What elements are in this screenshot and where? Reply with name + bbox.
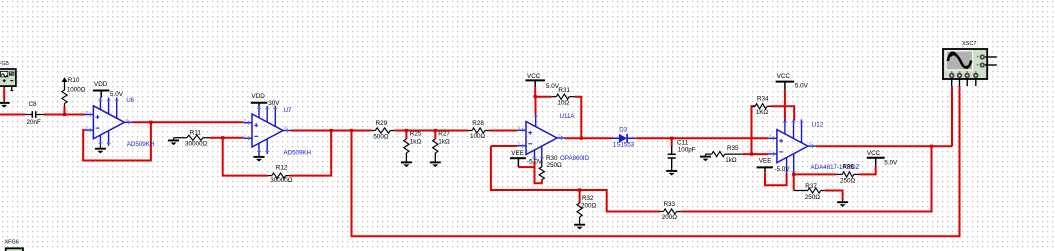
svg-text:U6: U6 [126, 97, 134, 104]
oscilloscope terminal 4 [973, 71, 978, 86]
junction U7 output-R12 [330, 129, 333, 132]
svg-text:200Ω: 200Ω [662, 214, 678, 221]
svg-text:R12: R12 [276, 165, 288, 172]
resistor R25 [404, 130, 422, 160]
wire R10 to input line [64, 107, 66, 115]
svg-text:VEE: VEE [511, 150, 524, 157]
wire R27 stub [434, 131, 436, 140]
junction U12 output feedback [930, 145, 933, 148]
svg-text:200Ω: 200Ω [581, 202, 597, 209]
svg-text:XFG6: XFG6 [5, 239, 19, 245]
svg-text:30000Ω: 30000Ω [185, 141, 208, 148]
svg-text:2: 2 [244, 134, 246, 138]
svg-text:5.0V: 5.0V [884, 160, 898, 167]
capacitor C11 [668, 139, 696, 168]
power VDD U7 30V [251, 93, 281, 107]
diode D3 [612, 126, 636, 148]
svg-text:1kΩ: 1kΩ [725, 157, 737, 164]
svg-text:AD509KH: AD509KH [284, 150, 312, 157]
svg-text:1KΩ: 1KΩ [756, 109, 769, 116]
wire C8 to U6 noninverting input [44, 114, 85, 116]
junction U7 output-netB [350, 129, 353, 132]
wire C11 stub [671, 138, 673, 146]
svg-text:R25: R25 [410, 130, 422, 137]
wire VEE dogleg to R30 [535, 161, 542, 183]
resistor R12 [268, 165, 293, 185]
resistor R11 [174, 130, 210, 148]
power VEE U11A -5.0V [510, 150, 543, 167]
svg-text:R36: R36 [843, 164, 855, 171]
svg-text:100pF: 100pF [678, 146, 696, 153]
svg-text:R35: R35 [727, 145, 739, 152]
junction R10-input [63, 113, 66, 116]
svg-text:C11: C11 [677, 139, 689, 146]
svg-text:3: 3 [244, 119, 246, 123]
wire U7 output [291, 130, 371, 132]
svg-text:AD509KH: AD509KH [127, 141, 155, 148]
ground under R25 [401, 160, 412, 167]
svg-text:R10: R10 [68, 77, 80, 84]
junction R25 [405, 129, 408, 132]
svg-text:250Ω: 250Ω [840, 178, 856, 185]
wire R31 to U11A output [575, 97, 581, 139]
svg-text:XSC7: XSC7 [962, 41, 976, 47]
ground under C11 [666, 168, 677, 175]
capacitor C8 [25, 101, 44, 126]
svg-text:3: 3 [85, 110, 87, 114]
svg-text:3: 3 [769, 134, 771, 138]
ground under R27 [430, 160, 441, 167]
ground at R35 [700, 154, 711, 161]
wire R35 to U12 inverting input [743, 153, 769, 155]
svg-text:VCC: VCC [777, 73, 791, 80]
junction R34-R35 node [750, 153, 753, 156]
resistor R29 [371, 120, 394, 140]
resistor R35 [706, 145, 743, 164]
wire R36 to VCC [859, 166, 876, 174]
wire VCC down to U12 supply pin [784, 90, 786, 122]
svg-text:10Ω: 10Ω [557, 99, 569, 106]
junction R31-output [580, 137, 583, 140]
wire netB from U7 output to scope channel B [352, 86, 960, 236]
wire R33 to U12 output node [681, 146, 932, 211]
wire bias node down to R37 [793, 174, 795, 190]
svg-text:6: 6 [126, 118, 128, 122]
wire feedback net down and right [491, 146, 660, 212]
svg-text:3: 3 [518, 126, 520, 130]
wire R11 to U7 inverting input [210, 137, 243, 139]
svg-text:2: 2 [769, 150, 771, 154]
op-amp U7 [243, 106, 291, 154]
wire R29 to R28 [394, 130, 468, 132]
svg-text:1kΩ: 1kΩ [438, 139, 450, 146]
resistor R30 [539, 155, 562, 181]
wire U11A output [565, 137, 612, 139]
junction R27 [434, 129, 437, 132]
junction C11 [670, 137, 673, 140]
wire R12 to U7 output node [290, 131, 331, 176]
svg-text:R31: R31 [558, 87, 570, 94]
resistor R36 [836, 164, 859, 185]
wire U12 output [816, 145, 952, 147]
svg-text:1000Ω: 1000Ω [67, 87, 86, 94]
wire R32 stub [579, 190, 581, 203]
svg-text:VEE: VEE [759, 158, 772, 165]
op-amp U12 [768, 119, 816, 174]
svg-text:VDD: VDD [252, 93, 266, 100]
op-amp U11A (OTA) [517, 113, 565, 160]
svg-text:R34: R34 [757, 95, 769, 102]
svg-text:R29: R29 [376, 120, 388, 127]
wire XFG5 minus terminal to ground [3, 88, 5, 100]
svg-text:R32: R32 [582, 195, 594, 202]
function generator XFG5 [0, 61, 16, 90]
junction U6 output-feedback [149, 121, 152, 124]
svg-text:5.0V: 5.0V [110, 91, 124, 98]
junction U12 bias pin node [792, 173, 795, 176]
svg-text:VDD: VDD [94, 81, 108, 88]
ground under R32 [574, 222, 585, 229]
ground under U6 [95, 146, 106, 154]
oscilloscope terminal 2 [957, 71, 962, 86]
power VCC U11A 5.0V [525, 73, 559, 90]
wire VEE dogleg to U12 negative supply pin [765, 172, 787, 185]
svg-text:6: 6 [809, 142, 811, 146]
junction node R11/R12/U7 [221, 136, 224, 139]
wire U12 output up to scope channel A [951, 86, 953, 146]
wire R37 to ground [825, 191, 843, 200]
svg-text:2: 2 [518, 142, 520, 146]
svg-text:1S1553: 1S1553 [613, 142, 635, 149]
svg-text:250Ω: 250Ω [547, 162, 563, 169]
wire VCC to R31 node [534, 87, 536, 97]
wire VEE to U11A negative supply pin [518, 166, 534, 168]
ground at R11 [168, 138, 179, 145]
wire input line left segment [0, 114, 25, 116]
ground under XFG5 [0, 100, 10, 108]
power VCC U12 5.0V [776, 73, 809, 90]
resistor R31 [535, 87, 575, 106]
svg-text:R27: R27 [438, 130, 450, 137]
svg-text:R33: R33 [664, 201, 676, 208]
resistor R28 [468, 120, 489, 140]
resistor R33 [660, 201, 681, 221]
wire R25 stub [405, 131, 407, 140]
svg-text:R11: R11 [190, 130, 202, 137]
svg-text:5.0V: 5.0V [795, 83, 809, 90]
wire D3 to U12 noninverting input [636, 137, 768, 139]
svg-text:6: 6 [559, 134, 561, 138]
svg-text:U12: U12 [812, 121, 824, 128]
svg-text:U7: U7 [284, 107, 292, 114]
power VDD U6 5.0V [93, 81, 124, 98]
ground under R37 [837, 200, 848, 207]
svg-text:250Ω: 250Ω [805, 194, 821, 201]
op-amp U6 [85, 98, 133, 146]
wire R12 branch down [223, 138, 268, 176]
resistor R34 feedback [752, 95, 795, 153]
wire bias node to R36 [794, 173, 837, 175]
wire U6 feedback loop [83, 122, 151, 160]
svg-text:500Ω: 500Ω [373, 133, 389, 140]
svg-text:100Ω: 100Ω [470, 133, 486, 140]
svg-text:XFG5: XFG5 [0, 61, 9, 67]
svg-text:6: 6 [285, 126, 287, 130]
power VCC R36 5.0V [867, 150, 898, 167]
svg-text:R30: R30 [546, 155, 558, 162]
svg-text:-5.0V: -5.0V [774, 166, 790, 173]
junction R32 [578, 188, 581, 191]
resistor R27 [433, 130, 451, 160]
svg-text:VCC: VCC [527, 73, 541, 80]
resistor R32 [577, 195, 597, 223]
junction VCC-R31 [534, 95, 537, 98]
svg-text:1kΩ: 1kΩ [410, 139, 422, 146]
svg-text:U11A: U11A [560, 113, 576, 120]
svg-text:30000Ω: 30000Ω [270, 177, 293, 184]
oscilloscope XSC7 [943, 41, 997, 79]
power VEE U12 -5.0V [757, 158, 791, 173]
oscilloscope terminal 1 [949, 71, 954, 86]
svg-text:R37: R37 [805, 183, 817, 190]
wire U6 output [132, 121, 243, 123]
wire R28 to U11A [489, 130, 517, 132]
svg-text:2: 2 [85, 126, 87, 130]
oscilloscope terminal 3 [965, 71, 970, 86]
svg-text:30V: 30V [268, 100, 280, 107]
resistor R10 [62, 77, 86, 107]
svg-text:OPA860ID: OPA860ID [560, 155, 590, 162]
ground under U7 [254, 154, 265, 162]
wire VCC node down to U11A supply pin [535, 97, 537, 115]
svg-text:VCC: VCC [867, 150, 881, 157]
function generator XFG6 (partial) [5, 239, 24, 251]
svg-text:D3: D3 [619, 126, 627, 133]
wire U11A inverting input [491, 145, 517, 147]
svg-text:R28: R28 [472, 120, 484, 127]
svg-text:20nF: 20nF [27, 119, 42, 126]
svg-text:C8: C8 [29, 101, 38, 108]
resistor R37 [794, 183, 825, 201]
